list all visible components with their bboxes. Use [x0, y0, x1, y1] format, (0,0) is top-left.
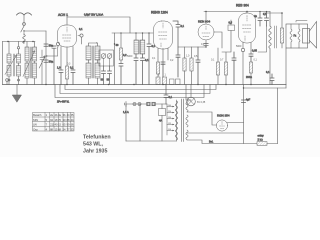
coil L5 osc a [86, 46, 91, 60]
resistor R16 2k [257, 135, 267, 146]
pin wires ACH1 [61, 47, 73, 71]
resistor R12 [216, 62, 219, 75]
node y33 junctions [120, 32, 149, 33]
svg-text:2 kΩ: 2 kΩ [258, 139, 263, 142]
mains terminal [125, 102, 127, 107]
coil L6 osc c [95, 46, 100, 60]
wire R13 v [222, 20, 231, 85]
antenna [17, 13, 32, 15]
wire REN904 right [215, 32, 223, 48]
svg-text:0,1: 0,1 [145, 59, 149, 62]
capacitor C27 filter [242, 99, 251, 103]
coil L4d [33, 61, 37, 85]
capacitor C5 grid [52, 46, 56, 85]
capacitor C25 bus end [266, 71, 274, 85]
core bandfilter2 [30, 47, 31, 78]
sub bus 3 [55, 85, 204, 98]
coil L9 ift b [140, 33, 145, 54]
capacitor C13b [147, 33, 156, 85]
capacitor C20 box [228, 22, 235, 31]
tube RGN354 envelope [216, 120, 227, 131]
core bandfilter1 [13, 54, 14, 76]
wire y47 link [178, 46, 206, 48]
node y47 [205, 46, 206, 47]
svg-text:4A: 4A [159, 120, 162, 123]
capacitor C7 anode [78, 34, 83, 44]
capacitor C6b [70, 67, 75, 85]
capacitor C4 50pF [44, 44, 54, 48]
wire rectifier fil a [187, 132, 244, 134]
terminal erde [6, 79, 9, 85]
svg-text:erdsy: erdsy [258, 135, 265, 138]
wire y88 link [244, 87, 287, 89]
node HT top [205, 11, 267, 12]
transformer T1 primary [175, 100, 177, 141]
small cap box C17 [170, 79, 175, 85]
capacitor C13 [141, 54, 150, 85]
capacitor C28 below bus [164, 85, 173, 105]
resistor R7 [156, 62, 159, 74]
trimmer C8 [101, 54, 106, 66]
core ift [138, 40, 140, 54]
capacitor C23 4uF [254, 12, 262, 27]
pin wires RENS [158, 48, 168, 64]
speaker cone [310, 22, 317, 49]
switch S1 antenna [21, 26, 24, 35]
capacitor C14 [161, 62, 165, 77]
tube REN904 envelope [198, 24, 214, 40]
wire top HT right [204, 11, 270, 13]
sub bus 1 [65, 85, 216, 90]
wire R11 v [191, 47, 193, 85]
svg-text:REN 904: REN 904 [198, 20, 211, 24]
coil L4c [33, 42, 37, 62]
wire right HT vertical [277, 88, 279, 144]
resistor R13 [224, 62, 227, 75]
pin wires RES964 [243, 42, 251, 54]
wire R7 bottom [157, 74, 159, 77]
wire mixer input vertical [45, 31, 47, 85]
capacitor C22 [249, 54, 253, 62]
padder box [99, 50, 114, 66]
svg-text:RES 964: RES 964 [236, 4, 249, 8]
wire antenna to tuner [24, 30, 46, 32]
capacitor C29 cathode [204, 44, 208, 46]
tube RENS1264 envelope [154, 21, 173, 49]
svg-text:0,1: 0,1 [263, 13, 267, 16]
coil L2a input [7, 42, 11, 64]
node top dots [7, 41, 33, 42]
capacitor C4b [44, 60, 54, 64]
svg-text:50µ: 50µ [49, 61, 54, 64]
svg-text:0,1: 0,1 [266, 71, 270, 74]
winding table [33, 113, 75, 132]
svg-text:Bel.: Bel. [209, 140, 214, 143]
wire mains bottom [126, 140, 177, 142]
wire R10 v [184, 47, 186, 85]
resistor R8 on bus [156, 77, 160, 85]
coil L4a [25, 42, 29, 62]
wire speaker top notch [296, 21, 307, 23]
wire rectifier output [227, 122, 244, 124]
svg-text:0,5: 0,5 [229, 22, 233, 25]
svg-text:2P+4SF kl.: 2P+4SF kl. [57, 101, 70, 104]
speaker coil Fsp [298, 24, 300, 48]
transformer T1 secondary HV [186, 100, 188, 112]
coil L1 antenna series [23, 35, 26, 44]
capacitor C11 [119, 64, 123, 85]
resistor R15 field [280, 28, 283, 43]
trimmer C9 [107, 54, 112, 66]
resistor R2 [65, 66, 68, 85]
core output trafo [275, 26, 277, 48]
coil L6 osc d [95, 63, 100, 78]
svg-text:RGN 354: RGN 354 [217, 114, 230, 118]
selector voltage labels [168, 105, 172, 131]
svg-text:0,1: 0,1 [79, 28, 83, 31]
svg-text:LW: LW [33, 123, 37, 127]
svg-text:4µF: 4µF [246, 99, 251, 102]
table text [33, 113, 74, 131]
fuse F1 [147, 102, 156, 106]
capacitor C10b padder [107, 66, 112, 85]
wire v114 [114, 33, 119, 85]
node HT bus [243, 87, 244, 88]
coil L3a [17, 42, 21, 64]
wire grid line y33 [112, 32, 153, 34]
wire heater bottom [187, 140, 278, 144]
wire speaker box down [285, 48, 287, 88]
wire trafo feed v186 [185, 85, 187, 101]
svg-text:0,05: 0,05 [252, 50, 257, 53]
wire ACH1 anode top [66, 17, 68, 25]
wire R14 bottom [250, 73, 252, 85]
tube ACH1 envelope [58, 25, 77, 47]
svg-text:RENS 1264: RENS 1264 [151, 11, 168, 15]
speaker driver [303, 29, 310, 44]
coil L4b [25, 61, 29, 85]
capacitor C24 [252, 12, 269, 53]
svg-text:Telefunken: Telefunken [83, 135, 111, 141]
core osc [92, 46, 93, 78]
wire antenna lead [23, 15, 25, 22]
node speaker feed [281, 12, 283, 14]
svg-text:5000: 5000 [127, 55, 133, 58]
wire mains mid [139, 104, 141, 141]
title text [83, 135, 111, 155]
capacitor C16 [176, 55, 180, 77]
svg-text:0,1: 0,1 [181, 25, 185, 28]
transformer T1 secondary mid [186, 115, 188, 127]
svg-text:0,5µF 2kV 1,3ΩA: 0,5µF 2kV 1,3ΩA [84, 14, 104, 17]
svg-text:543 WL,: 543 WL, [83, 142, 104, 148]
wire coil top link [3, 41, 36, 43]
ground symbol [13, 85, 22, 103]
resistor R9 on bus [163, 77, 167, 85]
capacitor C26 mains box [159, 104, 166, 141]
variable arrow L2 [5, 56, 16, 75]
tube RES964 envelope [239, 13, 256, 43]
svg-text:1,0: 1,0 [57, 67, 61, 70]
speaker coil Fz [290, 24, 292, 48]
grid cap ACH1 [56, 42, 59, 47]
capacitor C21 [232, 52, 236, 85]
speaker box [286, 24, 308, 48]
wire x46 link [46, 47, 58, 56]
wire rectifier anode [187, 112, 217, 125]
svg-text:0,1: 0,1 [169, 96, 173, 99]
sub bus 2 [60, 85, 210, 94]
resistor R14 [249, 62, 252, 73]
capacitor C15 anode RENS [173, 21, 180, 55]
svg-text:ACH 1: ACH 1 [58, 13, 68, 17]
capacitor C12 [134, 54, 138, 85]
variable arrow L4 [23, 51, 35, 77]
resistor R11 [190, 58, 193, 71]
wire RES964 top [246, 12, 248, 14]
transformer T1 secondary heater [186, 130, 188, 140]
transformer T1 core [182, 99, 184, 142]
svg-text:Jahr 1935: Jahr 1935 [83, 149, 107, 155]
wire REN904 cathode [205, 41, 207, 48]
antenna plug connector [23, 23, 26, 26]
misc value labels [44, 42, 257, 77]
wire REN904 top [205, 12, 207, 24]
choke L7 output [269, 12, 271, 85]
capacitor C6a [57, 67, 63, 85]
wire mains top [126, 103, 167, 105]
node bus junctions [45, 84, 251, 85]
wire HT vertical [243, 85, 245, 144]
capacitor C10 padder [101, 66, 106, 85]
wire top HT y17 [67, 17, 130, 33]
wire left edge [2, 42, 4, 85]
switch S2 mains [133, 103, 141, 106]
svg-text:6V 0,35: 6V 0,35 [197, 101, 206, 104]
voltage selector taps [167, 104, 175, 135]
capacitor C19 [196, 47, 200, 85]
terminal dots bottom [8, 79, 20, 81]
resistor R10 [183, 58, 186, 71]
wire osc coil stubs [89, 43, 98, 85]
coil L2b input [7, 63, 11, 85]
wire mains left [125, 104, 127, 141]
svg-text:Bereich: Bereich [33, 113, 42, 117]
trimmer C3 [39, 50, 45, 85]
wire choke top to speaker [264, 13, 282, 28]
coil L3b [17, 63, 21, 85]
dial lamp [187, 85, 206, 106]
svg-text:5000: 5000 [236, 45, 242, 48]
resistor R4 [119, 33, 127, 64]
svg-text:Osz.: Osz. [33, 127, 38, 131]
wire field resistor bottom [281, 43, 283, 48]
coil L5 osc b [86, 63, 91, 78]
svg-text:MW: MW [33, 118, 38, 122]
svg-text:0,1: 0,1 [70, 67, 74, 70]
small cap box C18 [176, 79, 181, 85]
main ground bus [3, 84, 287, 86]
node antenna junction [23, 30, 24, 31]
coil L9 ift a [134, 33, 139, 54]
wire R12 v [217, 48, 219, 85]
grid stopper circle [241, 48, 244, 84]
